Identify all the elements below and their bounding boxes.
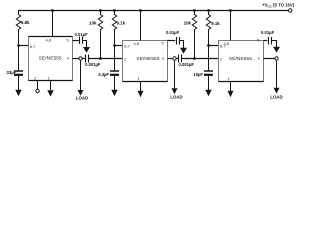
- node junction rail U2 supply: [139, 9, 142, 12]
- node junction R4 trigger3: [193, 57, 196, 60]
- wire U3 pin5 stub: [264, 40, 268, 42]
- wire U2 box bottom edge emphasis: [123, 81, 168, 83]
- wire +Vcc top rail: [18, 10, 288, 12]
- svg-text:3.3µF: 3.3µF: [98, 72, 109, 77]
- svg-text:3: 3: [162, 56, 165, 61]
- wire load1 drop: [80, 60, 82, 90]
- wire U1 box top edge emphasis: [29, 36, 73, 38]
- ground symbol C8 net: [273, 47, 280, 53]
- svg-text:4,8: 4,8: [133, 41, 139, 46]
- capacitor C1 33uF plates: [14, 70, 23, 72]
- capacitor C7 10uF plates: [204, 70, 213, 72]
- wire U1 pin5 stub: [73, 40, 79, 42]
- svg-text:0.01µF: 0.01µF: [261, 30, 275, 35]
- wire U2 pin3 output stub: [168, 58, 173, 60]
- wire node1 down to C1: [18, 46, 20, 72]
- resistor R3 9.1k timing: [112, 11, 116, 46]
- ground arrow C4: [111, 90, 117, 96]
- wire output1 node to C3: [82, 58, 85, 60]
- capacitor C8 0.01uF plates: [268, 37, 270, 45]
- svg-text:LOAD: LOAD: [76, 96, 88, 101]
- svg-text:SE/NE555: SE/NE555: [229, 56, 252, 62]
- node junction R5 C7 pins 6,7: [207, 44, 210, 47]
- svg-text:10k: 10k: [184, 21, 192, 26]
- capacitor C4 3.3uF plates: [110, 70, 119, 72]
- ground arrow C1: [15, 90, 21, 96]
- svg-text:6,7: 6,7: [220, 43, 226, 48]
- wire U3 pin3 output stub: [264, 58, 275, 60]
- svg-text:2: 2: [124, 56, 127, 61]
- node junction rail R5: [207, 9, 210, 12]
- svg-text:10k: 10k: [89, 21, 97, 26]
- svg-text:10µF: 10µF: [193, 72, 203, 77]
- capacitor C5 0.01uF plates: [176, 37, 178, 45]
- wire U1 Vcc pins 4,8 stub: [52, 11, 54, 37]
- node junction rail U3 supply: [229, 9, 232, 12]
- wire U2 pin1 ground stub: [140, 82, 142, 92]
- wire C1 to ground arrow: [18, 75, 20, 90]
- capacitor C6 0.001uF plates: [178, 55, 180, 63]
- svg-text:1: 1: [48, 75, 51, 80]
- node +Vcc terminal: [289, 9, 292, 12]
- node output3 terminal: [275, 57, 278, 60]
- wire load3 drop: [276, 60, 278, 88]
- svg-text:5: 5: [257, 37, 260, 42]
- wire U1 pin2 trigger stub: [37, 81, 39, 90]
- svg-text:6.8k: 6.8k: [21, 20, 30, 25]
- ground arrow load2: [172, 88, 178, 94]
- wire U3 pin1 ground stub: [230, 82, 232, 92]
- svg-text:0.01µF: 0.01µF: [75, 32, 89, 37]
- svg-text:0.01µF: 0.01µF: [166, 30, 180, 35]
- wire U3 Vcc pins 4,8 stub: [230, 11, 232, 41]
- wire R3 node to U2 pins 6,7: [115, 45, 123, 47]
- wire C2 to ground symbol: [83, 41, 87, 48]
- wire C7 to ground arrow: [208, 75, 210, 90]
- wire R5 node to U3 pins 6,7: [209, 45, 219, 47]
- ground arrow load3: [274, 88, 280, 94]
- wire U1 box bottom edge emphasis: [29, 80, 73, 82]
- capacitor C3 0.001uF plates: [85, 55, 87, 63]
- svg-text:0.001µF: 0.001µF: [179, 62, 195, 67]
- svg-text:9.1k: 9.1k: [117, 21, 126, 26]
- svg-text:LOAD: LOAD: [270, 94, 282, 99]
- resistor R4 10k trigger pull-up: [192, 11, 196, 59]
- ground arrow U2 pin1: [138, 91, 144, 97]
- svg-text:4,8: 4,8: [45, 38, 51, 43]
- wire C8 to ground symbol: [272, 41, 277, 48]
- svg-text:6,7: 6,7: [30, 44, 36, 49]
- capacitor C2 0.01uF plates: [79, 37, 81, 45]
- op-amp U3 timer box SE/NE555: [219, 41, 264, 82]
- wire load2 drop: [174, 60, 176, 88]
- wire C4 to ground arrow: [114, 75, 116, 90]
- node junction R1 C1 pins 6,7: [17, 44, 20, 47]
- wire U3 box bottom edge emphasis: [219, 81, 264, 83]
- wire U1 pin1 ground stub: [50, 81, 52, 91]
- ground arrow C7: [205, 90, 211, 96]
- resistor R2 10k trigger pull-up: [98, 11, 102, 59]
- ground arrow load1: [78, 90, 84, 96]
- wire U1 pin3 output stub: [73, 58, 79, 60]
- node trigger input terminal: [36, 89, 39, 92]
- svg-text:5: 5: [161, 40, 164, 45]
- svg-text:2: 2: [220, 56, 223, 61]
- svg-text:+VCC (5 TO 15V): +VCC (5 TO 15V): [262, 3, 295, 9]
- resistor R1 6.8k: [16, 11, 20, 46]
- wire R5 node down to C7: [208, 46, 210, 72]
- resistor R5 9.1k timing: [206, 11, 210, 46]
- svg-text:1: 1: [227, 76, 230, 81]
- wire C6 to U3 pin2: [182, 58, 219, 60]
- svg-text:0.001µF: 0.001µF: [85, 62, 101, 67]
- node output2 terminal: [173, 57, 176, 60]
- ground symbol C2 net: [83, 47, 90, 53]
- node junction rail U1 supply: [51, 9, 54, 12]
- node junction R2 trigger2: [99, 57, 102, 60]
- node junction rail R3: [113, 9, 116, 12]
- ground arrow U3 pin1: [228, 91, 234, 97]
- wire U2 pin5 stub: [168, 40, 176, 42]
- svg-text:9.1k: 9.1k: [211, 21, 220, 26]
- svg-text:6,7: 6,7: [124, 43, 130, 48]
- wire R3 node down to C4: [114, 46, 116, 72]
- wire output2 node to C6: [176, 58, 178, 60]
- ground arrow U1 pin1: [47, 90, 53, 96]
- svg-text:1: 1: [137, 76, 140, 81]
- svg-text:SE/NE555: SE/NE555: [39, 56, 62, 62]
- op-amp U2 timer box SE/NE555: [123, 41, 168, 82]
- node junction R3 C4 pins 6,7: [113, 44, 116, 47]
- node output1 terminal: [79, 57, 82, 60]
- wire U2 Vcc pins 4,8 stub: [140, 11, 142, 41]
- node junction rail R2: [99, 9, 102, 12]
- ground symbol C5 net: [180, 48, 187, 54]
- svg-text:LOAD: LOAD: [170, 95, 182, 100]
- svg-text:2: 2: [34, 75, 37, 80]
- svg-text:SE/NE555: SE/NE555: [136, 56, 159, 62]
- op-amp U1 timer box SE/NE555: [29, 37, 73, 81]
- wire C3 to U2 pin2: [89, 58, 123, 60]
- node junction rail R4: [193, 9, 196, 12]
- svg-text:3: 3: [257, 55, 260, 60]
- wire C5 to ground symbol: [180, 41, 184, 49]
- svg-text:33µF: 33µF: [6, 70, 16, 75]
- svg-text:3: 3: [67, 55, 70, 60]
- wire node1 to U1 pins 6,7: [19, 45, 29, 47]
- svg-text:5: 5: [66, 37, 69, 42]
